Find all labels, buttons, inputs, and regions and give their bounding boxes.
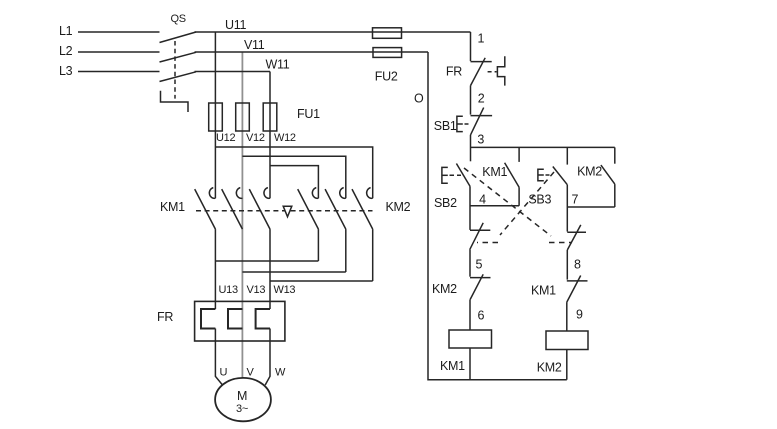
svg-text:KM1: KM1 (160, 200, 185, 214)
svg-text:SB3: SB3 (528, 193, 551, 207)
svg-text:FU1: FU1 (297, 107, 320, 121)
wire L2 bus to neutral corner (195, 51, 429, 53)
svg-text:KM2: KM2 (577, 165, 602, 179)
FR heater W (256, 309, 270, 329)
svg-text:L3: L3 (59, 64, 73, 78)
svg-text:KM2: KM2 (386, 200, 411, 214)
contactor KM2 main contact 3 (352, 188, 373, 230)
svg-text:3~: 3~ (236, 403, 248, 415)
svg-text:M: M (237, 389, 247, 403)
svg-text:FR: FR (446, 65, 462, 79)
wire SB3 to node 7 (566, 185, 568, 232)
contact KM2 NC interlock (432, 274, 491, 330)
svg-text:U13: U13 (219, 284, 238, 296)
motor M (215, 378, 271, 421)
bus node 3 (471, 146, 615, 148)
svg-text:QS: QS (171, 13, 186, 25)
contactor KM2 main contact 1 (298, 188, 319, 230)
linkage marker triangle (283, 206, 292, 217)
bus node 4 (470, 205, 519, 207)
contactor KM1 main contact V (222, 188, 243, 230)
svg-text:W13: W13 (274, 284, 296, 296)
wire W13 down (269, 229, 271, 309)
wire L3 to W11 corner (195, 71, 271, 73)
svg-text:KM1: KM1 (531, 284, 556, 298)
wire KM2 contact 3 down (372, 229, 374, 281)
svg-text:L2: L2 (59, 44, 73, 58)
svg-text:4: 4 (479, 193, 486, 207)
thermal relay FR heater box (195, 301, 285, 341)
FR NC contact (control) (446, 56, 505, 85)
FR heater U (201, 309, 215, 329)
svg-text:U: U (220, 367, 228, 379)
bus U13 cross (215, 260, 318, 262)
svg-text:W: W (275, 367, 286, 379)
svg-text:2: 2 (478, 92, 485, 106)
wire U tap to KM2 (215, 147, 372, 198)
contact KM1 NC interlock (531, 276, 588, 332)
svg-text:U12: U12 (216, 132, 235, 144)
pushbutton SB2 (NO start fwd) (434, 164, 470, 211)
svg-text:V13: V13 (247, 284, 266, 296)
fuse FU1 (209, 103, 320, 131)
wire L3 to QS (78, 71, 160, 73)
coil KM2 (537, 331, 588, 375)
svg-text:KM2: KM2 (537, 361, 562, 375)
svg-text:V12: V12 (246, 132, 265, 144)
switch QS (160, 13, 197, 112)
wire L1 bus to control corner (195, 31, 471, 33)
contact SB2-NC (right column) (567, 225, 586, 280)
pushbutton SB3 (NO start rev) (528, 147, 567, 206)
svg-text:SB2: SB2 (434, 196, 457, 210)
contactor KM1 main contact W (249, 188, 270, 230)
wire W11 down through FU1 (269, 72, 271, 199)
svg-text:V: V (247, 367, 255, 379)
wire W to motor (265, 329, 270, 386)
svg-text:KM1: KM1 (482, 165, 507, 179)
mechanical linkage dashed (196, 210, 373, 212)
coil KM1 (440, 330, 492, 373)
wire W tap to KM2 (270, 166, 318, 199)
svg-text:1: 1 (478, 32, 485, 46)
wire SB2 to node 4 (469, 186, 471, 230)
svg-text:KM1: KM1 (440, 359, 465, 373)
contact KM1 aux (NO seal-in) (482, 147, 519, 205)
fuse FU2 lower (373, 48, 402, 58)
svg-text:9: 9 (576, 308, 583, 322)
wire U13 down (214, 229, 216, 309)
svg-text:5: 5 (476, 258, 483, 272)
contactor KM1 main contact U (195, 188, 216, 230)
wire coil KM1 to bottom bus (469, 348, 471, 380)
wire node 2 (470, 86, 472, 115)
bus W13 cross (270, 280, 373, 282)
contactor KM2 main contact 2 (325, 188, 346, 230)
svg-text:FR: FR (157, 310, 173, 324)
wire node 3 (470, 135, 472, 161)
wire U11 down through FU1 (214, 32, 216, 198)
contact SB3-NC (left column) (470, 223, 491, 277)
svg-text:W12: W12 (274, 132, 296, 144)
pushbutton SB1 (NC stop) (434, 108, 492, 135)
wire node 1 corner down (470, 32, 472, 61)
wire U to motor (215, 329, 222, 386)
svg-text:U11: U11 (225, 18, 246, 32)
svg-text:SB1: SB1 (434, 119, 457, 133)
linkage SB3 to its NC (dashed) (477, 172, 554, 243)
wire KM2 contact 2 down (345, 229, 347, 272)
bus V13 cross (242, 271, 345, 273)
svg-text:7: 7 (572, 193, 579, 207)
svg-text:3: 3 (477, 133, 484, 147)
linkage SB2 to its NC (dashed) (464, 168, 572, 243)
wire KM2 contact 1 down (317, 229, 319, 261)
svg-text:6: 6 (478, 309, 485, 323)
wire V11/V13 phase V (gray, continuous) (241, 52, 243, 378)
FR heater V (228, 309, 242, 329)
svg-text:KM2: KM2 (432, 282, 457, 296)
svg-text:V11: V11 (244, 38, 265, 52)
fuse FU2 upper (373, 28, 402, 39)
svg-text:O: O (414, 92, 424, 106)
wire L2 to QS (78, 51, 160, 53)
svg-text:FU2: FU2 (375, 70, 398, 84)
wire V tap to KM2 (242, 156, 345, 198)
svg-text:8: 8 (574, 258, 581, 272)
contact KM2 aux (NO seal-in) (577, 147, 615, 207)
svg-text:L1: L1 (59, 24, 73, 38)
svg-text:W11: W11 (266, 58, 290, 72)
wire coil KM2 to bottom bus (566, 350, 568, 380)
wire neutral O (428, 52, 567, 380)
wire L1 to QS (78, 31, 160, 33)
bus node 7 (567, 206, 615, 208)
